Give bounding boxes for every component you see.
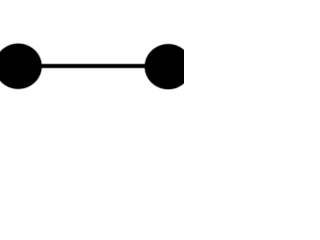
node A	[0, 43, 43, 90]
wire	[18, 63, 168, 69]
node B	[144, 43, 193, 90]
